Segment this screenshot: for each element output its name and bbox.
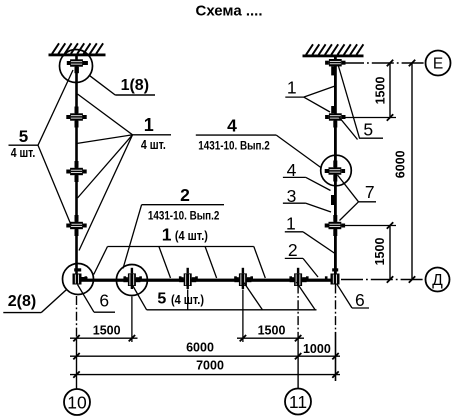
axis circle Д [426,268,450,292]
svg-text:1500: 1500 [374,77,388,105]
svg-text:11: 11 [289,392,307,412]
svg-text:2: 2 [180,185,190,205]
svg-text:1: 1 [286,214,296,234]
leader 1 to column upper point [304,86,335,97]
svg-text:Е: Е [433,56,443,73]
joint symbol: beam node on axis 10+1500 (circled, node of label 2) [123,268,140,289]
svg-text:Д: Д [432,272,443,289]
axis circle Е [426,51,451,76]
svg-text:Схема ....: Схема .... [195,3,262,20]
svg-text:5: 5 [157,291,166,308]
leader 6 to corner joint [78,285,95,313]
axis 11 line (dash-dot + solid through dims) [297,285,299,338]
leader 3 to jog plate [306,203,331,212]
leader 4 to column [306,177,331,190]
joint symbol: left column second [66,107,86,128]
bracket leg to beam segment 3 [205,247,217,279]
svg-text:1500: 1500 [258,324,286,338]
dimension line 6000 vertical right [411,63,413,280]
dimension line 1500 (right bottom) [237,337,304,339]
bracket line for 1 (4 шт.) [108,246,254,248]
svg-text:6: 6 [99,291,109,311]
left column member [75,56,78,280]
joint symbol: right column second [325,106,345,128]
fan leader to segment 2 [77,135,133,144]
svg-text:1500: 1500 [373,238,387,266]
dimension line 7000 [70,374,340,376]
extension line below beam node 2 [131,297,133,343]
fan leader to segment 4 [79,135,133,251]
svg-text:6000: 6000 [186,341,214,355]
support hatch right [306,44,363,55]
support baseline right [303,55,364,58]
dimension line 1500 vertical bottom right [389,226,391,280]
axis 10 line (dash-dot + solid through dims) [76,296,78,340]
leader 7 to circled joint [338,175,359,202]
right column member [334,57,337,281]
leader 5 to beam node 4 [244,282,263,310]
bracket leg to beam segment 1 [94,247,108,275]
svg-text:7000: 7000 [196,359,224,373]
fan leader to segment 3 [78,135,133,198]
joint symbol: right column third (circled) [325,161,345,182]
bottom beam member [77,279,337,282]
leader 5 to joint 2 [339,117,358,140]
svg-text:5: 5 [363,119,373,139]
joint symbol: beam node on axis 11 [290,268,307,286]
bracket leg to beam segment 2 [159,247,171,279]
leader 5 to fourth joint [38,145,72,226]
fan leader to segment 1 [78,94,133,135]
leader 5 to top joint [338,65,360,139]
extension line below beam node 4 [242,290,244,343]
circle around right column third joint [321,155,352,186]
axis circle 11 [285,389,311,415]
support baseline left [49,54,106,57]
svg-text:1500: 1500 [93,324,121,338]
svg-text:(4 шт.): (4 шт.) [175,229,208,243]
svg-text:2(8): 2(8) [8,293,36,310]
svg-text:1: 1 [144,115,154,135]
leader 4 to circled right joint [276,135,321,168]
svg-text:4 шт.: 4 шт. [141,138,166,152]
circle around node 1(8) [60,50,93,83]
svg-text:1431-10. Вып.2: 1431-10. Вып.2 [148,208,220,222]
support hatch left [52,43,103,54]
svg-text:6000: 6000 [394,150,408,178]
element 3 jog plate on right column [331,195,334,205]
svg-text:5: 5 [19,127,28,146]
leader 2 to beam [303,258,318,277]
axis Д line (dash-dot) [341,279,426,281]
svg-text:1(8): 1(8) [121,77,149,94]
joint symbol: left column third [66,161,86,182]
svg-text:10: 10 [67,392,87,412]
joint symbol: right column top [325,59,345,75]
dimension line 1500 vertical top right [389,63,391,118]
leader 1(8) to circled top joint [90,76,116,95]
extension line right of right column joint 2 [342,117,396,119]
svg-text:1431-10. Вып.2: 1431-10. Вып.2 [198,138,270,152]
svg-text:1: 1 [287,77,297,97]
circle around beam node 2 [116,265,147,296]
svg-text:2: 2 [288,240,298,260]
leader 6 to right corner joint [337,284,352,308]
joint symbol: beam node 4 [234,268,251,289]
corner joint symbol: right beam end [331,268,340,284]
svg-text:1: 1 [162,224,172,244]
joint symbol: left column top (node 1(8)) [67,59,88,73]
joint symbol: right column fourth [325,215,345,236]
leader 7 to joint 4 [340,202,359,221]
axis Е line (dash-dot) [342,62,426,64]
leader 5 to beam node 2 [132,284,147,310]
leader 5 to top joint [38,70,73,145]
extension line right of right column joint 4 [340,225,396,227]
leader 2(8) to circled corner joint [41,290,66,313]
right column axis extension down (dash-dot) [335,285,337,333]
dimension line 6000 + 1000 [70,355,340,357]
axis circle 10 [64,389,90,415]
leader 5 to beam node 3 [187,290,189,310]
dimension line 1500 (left bottom) [70,337,138,339]
corner joint symbol: left beam end (node 2(8)) [73,268,88,284]
circle around node 2(8) [63,264,94,295]
svg-text:7: 7 [365,182,375,202]
svg-text:6: 6 [355,290,365,310]
leader 1 to right joint 2 [304,97,330,112]
beam segment end nubs [85,276,328,279]
leader 1 to column lower segment [303,232,335,254]
svg-text:1000: 1000 [303,342,331,356]
leader 5 to beam node on axis 11 [296,282,315,310]
svg-text:4: 4 [227,116,237,136]
svg-text:4 шт.: 4 шт. [11,146,36,160]
bracket leg to beam segment 4 [254,247,265,279]
leader 2 to circled beam node [123,205,142,269]
joint symbol: beam node 3 [179,268,196,289]
joint symbol: left column fourth [66,215,86,236]
